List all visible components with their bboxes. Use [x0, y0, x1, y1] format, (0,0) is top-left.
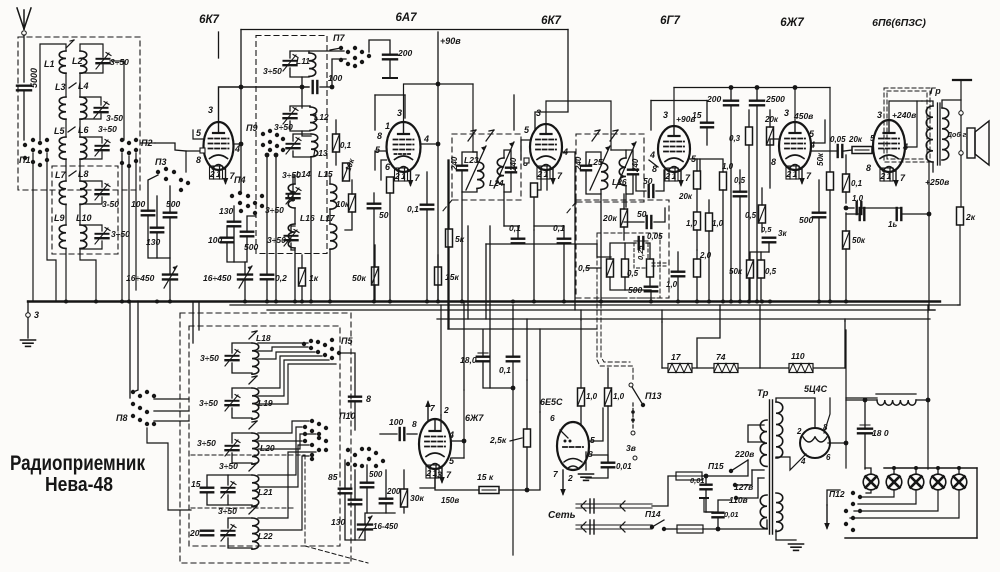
dial lamp L2	[886, 474, 902, 490]
wire	[247, 216, 255, 232]
wire	[129, 301, 131, 398]
wire	[472, 84, 474, 152]
grid arrow	[425, 400, 431, 420]
wire	[811, 120, 825, 143]
switch contact	[45, 158, 49, 162]
junction	[755, 85, 760, 90]
primary winding	[760, 420, 767, 466]
svg-text:0,01: 0,01	[616, 462, 632, 471]
wire	[258, 421, 309, 433]
svg-text:1,0: 1,0	[613, 392, 625, 401]
wire	[563, 226, 565, 238]
svg-text:8: 8	[412, 419, 417, 429]
shielded wire dashed	[597, 290, 633, 380]
plus	[860, 424, 870, 426]
dashed box: coil unit L7-L10	[52, 166, 118, 254]
switch contact	[310, 453, 314, 457]
wire	[80, 65, 103, 73]
wire anode V1	[219, 87, 310, 122]
svg-text:0,1: 0,1	[553, 223, 565, 233]
tube V1 6К7	[204, 122, 234, 179]
switch contact	[316, 350, 320, 354]
wire	[499, 489, 527, 491]
wire	[80, 181, 102, 187]
svg-text:L11: L11	[296, 56, 310, 66]
switch contact	[324, 426, 328, 430]
switch contact	[309, 339, 313, 343]
wire	[426, 210, 428, 301]
wire	[148, 216, 170, 258]
wire	[586, 152, 601, 166]
wire	[696, 277, 698, 301]
wire lamp top rail	[884, 467, 977, 469]
wire	[275, 155, 277, 301]
svg-text:L21: L21	[258, 487, 273, 497]
wire top loop	[241, 29, 568, 31]
resistor	[843, 174, 850, 192]
wire mains	[576, 503, 652, 505]
junction	[734, 496, 738, 500]
wire	[937, 468, 939, 474]
svg-text:2500: 2500	[765, 94, 785, 104]
wire	[234, 143, 242, 145]
resistor	[957, 207, 964, 225]
wire	[232, 453, 252, 463]
dashed box: detector network	[576, 200, 669, 298]
wire	[369, 40, 390, 55]
junction	[127, 300, 131, 304]
wire	[80, 44, 103, 57]
dashed box: oscillator coil unit L11-L17	[256, 36, 327, 254]
capacitor	[349, 397, 361, 402]
wire anode V5	[794, 87, 796, 122]
wire	[440, 305, 442, 415]
dashed box: IF transformer 2 L25 L26	[576, 134, 644, 202]
svg-text:П8: П8	[116, 413, 127, 423]
junction	[436, 142, 441, 147]
switch contact	[353, 56, 357, 60]
arrow	[66, 40, 74, 48]
switch contact	[303, 425, 307, 429]
wire	[526, 380, 528, 429]
svg-text:16÷450: 16÷450	[203, 273, 232, 283]
wire	[916, 399, 928, 401]
wire	[403, 470, 405, 489]
wire	[258, 434, 316, 449]
terminal	[633, 456, 637, 460]
switch contact	[145, 390, 149, 394]
wire	[845, 155, 847, 174]
svg-text:L18: L18	[256, 333, 271, 343]
wire	[527, 412, 540, 490]
svg-text:L19: L19	[258, 398, 273, 408]
svg-text:3-50: 3-50	[106, 113, 123, 123]
svg-text:0,05: 0,05	[647, 232, 663, 241]
svg-text:50к: 50к	[352, 273, 366, 283]
wire	[373, 209, 375, 301]
wire	[739, 197, 741, 301]
switch contact	[179, 188, 183, 192]
wire	[344, 460, 346, 489]
svg-text:7: 7	[557, 171, 563, 181]
switch contact	[367, 54, 371, 58]
dashed box: band coil unit outer	[180, 313, 351, 563]
dial lamp L4	[930, 474, 946, 490]
capacitor	[701, 485, 712, 490]
switch contact	[360, 50, 364, 54]
wire	[580, 310, 582, 320]
resistor	[720, 172, 727, 190]
wire	[706, 511, 713, 513]
transformer secondary	[942, 108, 949, 160]
wire	[702, 460, 748, 476]
capacitor	[734, 192, 746, 197]
wire	[463, 301, 465, 390]
wire	[690, 159, 700, 170]
arrowhead	[252, 376, 257, 377]
svg-text:7: 7	[685, 173, 691, 183]
svg-text:П7: П7	[333, 33, 345, 43]
svg-text:3÷50: 3÷50	[267, 235, 286, 245]
wire	[591, 455, 608, 462]
wire	[80, 114, 101, 119]
svg-text:2к: 2к	[965, 212, 976, 222]
svg-text:3: 3	[34, 310, 39, 320]
svg-text:L16: L16	[300, 213, 315, 223]
svg-text:П1: П1	[19, 155, 30, 165]
inductor L16	[288, 224, 295, 248]
inductor L8	[80, 181, 87, 204]
junction	[436, 300, 440, 304]
wire	[385, 504, 387, 513]
wire	[748, 145, 750, 301]
svg-text:7: 7	[553, 469, 559, 479]
capacitor	[221, 238, 233, 243]
junction	[168, 300, 172, 304]
dashed box: band coil unit inner	[189, 326, 340, 546]
wire	[623, 227, 625, 240]
inductor L20	[252, 433, 259, 464]
arrow	[824, 505, 830, 530]
wire	[580, 320, 582, 388]
wire	[850, 490, 959, 518]
wire	[624, 243, 626, 259]
switch contact	[164, 177, 168, 181]
switch contact	[317, 432, 321, 436]
svg-text:130: 130	[331, 517, 345, 527]
coil 74	[714, 364, 738, 373]
resistor	[827, 172, 834, 190]
plug bar	[589, 499, 591, 513]
antenna arm left	[17, 8, 24, 29]
wire	[534, 170, 541, 230]
wire	[79, 73, 81, 97]
wire	[748, 441, 764, 443]
switch contact	[374, 464, 378, 468]
loudspeaker	[967, 128, 975, 158]
svg-text:6К7: 6К7	[541, 15, 561, 27]
switch contact	[851, 516, 855, 520]
junction	[641, 403, 645, 407]
resistor	[706, 213, 713, 231]
wire	[706, 128, 708, 145]
wire	[154, 410, 189, 412]
wire +250 rail	[928, 162, 930, 310]
capacitor	[860, 208, 865, 220]
wire	[65, 119, 67, 137]
arrowhead	[613, 130, 618, 131]
filament winding	[776, 493, 783, 531]
wire	[198, 303, 200, 330]
capacitor	[383, 55, 397, 60]
wire	[526, 319, 528, 380]
wire	[154, 398, 189, 400]
svg-text:6Ж7: 6Ж7	[780, 17, 804, 29]
wire	[420, 469, 435, 488]
switch contact	[138, 406, 142, 410]
wire	[258, 456, 309, 530]
wire	[489, 226, 491, 319]
junction	[265, 300, 269, 304]
svg-text:0,5: 0,5	[745, 211, 757, 220]
wire	[845, 249, 847, 301]
svg-text:7: 7	[900, 173, 906, 183]
svg-text:L3: L3	[55, 82, 66, 92]
svg-text:15: 15	[191, 479, 201, 489]
trimmer capacitor	[284, 230, 299, 247]
plug arrow	[620, 501, 625, 511]
svg-text:4: 4	[809, 140, 815, 150]
wire	[696, 159, 698, 171]
wire	[696, 189, 698, 212]
svg-text:5: 5	[524, 125, 530, 135]
wire	[389, 193, 391, 301]
resistor	[349, 194, 356, 212]
svg-text:5: 5	[375, 145, 381, 155]
wire	[228, 518, 252, 528]
svg-text:7: 7	[430, 403, 436, 413]
wire	[365, 513, 395, 524]
junction	[892, 466, 896, 470]
wire bus4	[437, 318, 930, 320]
svg-text:L20: L20	[260, 443, 275, 453]
wire	[893, 468, 895, 474]
svg-text:450в: 450в	[793, 111, 813, 121]
switch contact	[156, 170, 160, 174]
switch contact	[844, 509, 848, 513]
switch contact	[268, 129, 272, 133]
inductor L19	[252, 388, 259, 419]
wire	[752, 469, 764, 471]
wire	[504, 225, 518, 227]
resistor	[531, 183, 538, 197]
svg-text:2: 2	[786, 169, 792, 179]
capacitor	[763, 238, 775, 243]
tube V3 6К7	[530, 124, 562, 179]
svg-text:1: 1	[544, 169, 549, 179]
trimmer capacitor	[95, 228, 110, 245]
svg-text:2: 2	[394, 171, 400, 181]
switch contact	[31, 148, 35, 152]
fuse	[677, 525, 703, 533]
arrow	[494, 142, 514, 188]
svg-text:85: 85	[328, 472, 338, 482]
svg-text:10к: 10к	[336, 200, 350, 209]
svg-text:L2: L2	[72, 56, 83, 66]
junction	[649, 300, 653, 304]
capacitor	[672, 272, 684, 277]
switch contact	[310, 419, 314, 423]
wire	[462, 152, 477, 166]
wire mains	[576, 507, 652, 509]
switch contact	[179, 178, 183, 182]
wire	[756, 88, 758, 101]
switch contact	[323, 353, 327, 357]
wire	[661, 322, 663, 368]
switch lever	[652, 520, 664, 527]
resistor	[333, 134, 340, 152]
junction	[650, 525, 654, 529]
resistor	[479, 487, 499, 494]
wire	[228, 475, 252, 485]
resistor	[435, 267, 442, 285]
wire	[611, 149, 626, 151]
antenna terminal	[22, 31, 27, 36]
tube V5 6Ж7	[779, 122, 811, 179]
resistor	[694, 212, 701, 230]
wire	[258, 445, 309, 487]
capacitor	[339, 489, 351, 494]
svg-text:1,0: 1,0	[852, 194, 864, 203]
svg-text:100: 100	[131, 199, 145, 209]
wire	[865, 468, 871, 474]
wire grid	[186, 151, 204, 172]
wire	[854, 490, 938, 511]
resistor	[747, 260, 754, 278]
svg-text:50: 50	[643, 176, 653, 186]
wire	[309, 106, 311, 107]
switch contact	[152, 422, 156, 426]
wire	[293, 176, 295, 184]
wire	[156, 233, 158, 258]
terminal	[959, 111, 963, 115]
svg-text:0,1: 0,1	[509, 223, 521, 233]
switch contact	[858, 509, 862, 513]
wire	[232, 343, 252, 353]
wire bus3	[267, 309, 935, 311]
wire	[677, 252, 679, 272]
capacitor	[361, 483, 373, 488]
svg-text:0,5: 0,5	[627, 269, 639, 278]
svg-text:20к: 20к	[678, 192, 693, 201]
wire	[258, 364, 336, 404]
wire	[600, 194, 602, 301]
wire	[927, 305, 929, 312]
capacitor	[507, 357, 519, 362]
switch contact	[268, 140, 272, 144]
wire	[329, 176, 331, 184]
dial lamp L5	[951, 474, 967, 490]
junction	[957, 466, 961, 470]
svg-text:3÷50: 3÷50	[263, 66, 282, 76]
resistor	[759, 205, 766, 223]
wire	[148, 175, 158, 211]
wire	[960, 115, 962, 150]
svg-text:200: 200	[386, 487, 401, 496]
shielded stub	[652, 262, 668, 264]
choke core	[876, 393, 916, 395]
svg-text:6Г7: 6Г7	[660, 15, 680, 27]
junction	[388, 300, 392, 304]
junction	[662, 527, 666, 531]
junction	[425, 300, 429, 304]
resistor	[767, 127, 774, 145]
capacitor	[142, 211, 154, 216]
wire	[827, 490, 840, 505]
wire	[489, 319, 491, 388]
junction	[707, 300, 711, 304]
junction	[716, 527, 721, 532]
wire	[23, 91, 25, 140]
wire	[656, 170, 664, 191]
junction	[532, 300, 536, 304]
wire main ground bus	[28, 300, 940, 302]
resistor	[843, 231, 850, 249]
capacitor	[457, 166, 467, 171]
wire	[661, 310, 663, 322]
wire	[27, 301, 29, 312]
switch contact	[261, 143, 265, 147]
arrow	[249, 463, 257, 471]
resistor	[746, 127, 753, 145]
wire +90v rail	[437, 32, 439, 301]
wire	[700, 159, 723, 172]
wire	[332, 59, 346, 87]
svg-text:110: 110	[791, 351, 805, 361]
wire mains	[576, 528, 652, 530]
switch contact	[31, 138, 35, 142]
svg-text:5Ц4С: 5Ц4С	[804, 384, 828, 394]
wire	[539, 329, 541, 412]
svg-text:L9: L9	[54, 213, 65, 223]
svg-text:4: 4	[423, 134, 429, 144]
junction	[511, 300, 515, 304]
junction	[721, 300, 725, 304]
junction	[704, 474, 709, 479]
wire	[846, 397, 877, 399]
wire anode V4	[673, 88, 675, 127]
wire	[866, 490, 871, 493]
tube V2 6А7	[387, 122, 421, 181]
capacitor	[313, 81, 318, 93]
wire	[872, 148, 877, 150]
terminal	[959, 151, 963, 155]
switch contact	[275, 133, 279, 137]
switch contact	[38, 141, 42, 145]
junction	[828, 300, 832, 304]
svg-text:L12: L12	[314, 112, 329, 122]
wire	[863, 207, 900, 209]
wire	[421, 143, 436, 145]
wire	[517, 226, 519, 238]
capacitor	[241, 232, 253, 237]
wire	[625, 194, 627, 207]
wire	[40, 44, 66, 140]
wire AVC	[486, 243, 597, 245]
terminal	[631, 431, 635, 435]
junction	[239, 142, 244, 147]
resistor	[694, 171, 701, 189]
